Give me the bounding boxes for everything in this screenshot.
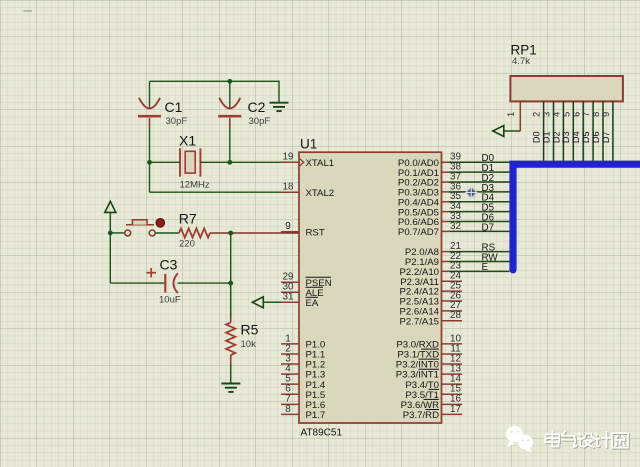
artifact faint line top-left: [24, 10, 33, 12]
pin 2 P1.1: [281, 353, 299, 355]
pin 28 P2.7: [442, 320, 463, 322]
resistor R7: [179, 228, 210, 237]
input arrow terminal EA: [252, 297, 263, 308]
wire top horizontal (C1-C2-ground net): [150, 80, 280, 82]
svg-text:19: 19: [283, 152, 294, 163]
wire button to R7: [155, 232, 179, 234]
svg-text:D6: D6: [591, 131, 601, 143]
svg-text:28: 28: [450, 310, 461, 321]
power arrow terminal (reset net): [105, 201, 116, 212]
resistor R5: [226, 323, 235, 356]
wire ground drop top-right: [278, 81, 280, 103]
svg-text:D5: D5: [581, 131, 591, 143]
pin 16 P3.6: [442, 403, 463, 405]
svg-text:D7: D7: [601, 131, 611, 143]
svg-text:8: 8: [285, 404, 291, 415]
pin 26 P2.5: [442, 300, 463, 302]
pin 25 P2.4: [442, 290, 463, 292]
pin 2 RP1 lead: [543, 101, 545, 160]
svg-text:12MHz: 12MHz: [180, 180, 210, 191]
svg-text:32: 32: [450, 221, 461, 232]
svg-text:P2.7/A15: P2.7/A15: [400, 316, 439, 327]
svg-text:C1: C1: [165, 99, 183, 115]
svg-text:P1.7: P1.7: [306, 410, 326, 421]
wire RST junction down to C3: [230, 233, 232, 283]
wire junction to button: [110, 232, 124, 234]
plus sign C3: [147, 272, 157, 274]
pin 6 RP1 lead: [582, 101, 584, 160]
op U1 body: [299, 152, 442, 423]
pin 5 P1.4: [281, 383, 299, 385]
wire XTAL1 right (X1 to U1 pin 19): [200, 161, 299, 163]
pin 10 P3.0: [442, 343, 463, 345]
svg-text:7: 7: [581, 112, 591, 117]
wire C2 top vertical: [229, 81, 231, 108]
pin 9 RST: [281, 231, 299, 233]
pin 8 P1.7: [281, 413, 299, 415]
svg-text:2: 2: [532, 112, 542, 117]
pin 21 P2.0: [442, 251, 450, 253]
pin 15 P3.5: [442, 393, 463, 395]
pin 6 P1.5: [281, 393, 299, 395]
wire C3 left horizontal: [110, 282, 164, 284]
svg-text:30pF: 30pF: [249, 116, 271, 127]
pin 27 P2.6: [442, 310, 463, 312]
pin 19 XTAL1: [281, 161, 299, 163]
wire XTAL1 left (junction to X1): [150, 161, 181, 163]
svg-text:31: 31: [283, 292, 294, 303]
pin 38 P0.1/AD1: [442, 171, 450, 173]
pin 4 P1.3: [281, 373, 299, 375]
node junction C3 right: [228, 281, 233, 286]
pin 1 P1.0: [281, 343, 299, 345]
svg-text:P0.7/AD7: P0.7/AD7: [398, 227, 439, 238]
wire R5 to ground: [230, 355, 232, 364]
svg-text:10uF: 10uF: [159, 295, 181, 306]
button SW (reset): [126, 224, 154, 226]
svg-text:18: 18: [283, 182, 294, 193]
wire C1 top vertical: [149, 81, 151, 108]
pin 1 RP1 lead: [519, 101, 521, 131]
pin 22 P2.1: [442, 260, 450, 262]
bus (data/control, blue): [513, 164, 640, 270]
svg-text:D1: D1: [541, 131, 551, 143]
pin 14 P3.4: [442, 383, 463, 385]
pin 33 P0.6/AD6: [442, 221, 450, 223]
pin 24 P2.3: [442, 280, 463, 282]
svg-text:4: 4: [552, 112, 562, 117]
pin 29 PSEN: [281, 281, 299, 283]
ground (reset bottom): [221, 383, 240, 385]
capacitor C2: [219, 98, 240, 109]
svg-text:6: 6: [571, 112, 581, 117]
svg-text:XTAL2: XTAL2: [306, 188, 335, 199]
svg-text:R7: R7: [179, 211, 197, 227]
svg-text:8: 8: [591, 112, 601, 117]
svg-text:U1: U1: [300, 137, 317, 152]
watermark text (电气设计圈): [546, 432, 560, 447]
watermark wechat logo: [506, 426, 533, 453]
svg-text:C3: C3: [160, 257, 178, 273]
wire XTAL2 horizontal (to U1 pin 18): [150, 191, 300, 193]
pin 35 P0.4/AD4: [442, 201, 450, 203]
pin 3 P1.2: [281, 363, 299, 365]
capacitor C3 (polarized): [164, 274, 166, 293]
svg-text:30pF: 30pF: [166, 116, 188, 127]
pin 31 EA: [281, 301, 299, 303]
svg-text:C2: C2: [248, 99, 266, 115]
pin 3 RP1 lead: [553, 101, 555, 160]
svg-text:D4: D4: [571, 131, 581, 143]
svg-text:5: 5: [561, 112, 571, 117]
svg-text:9: 9: [285, 221, 291, 232]
svg-text:RST: RST: [306, 227, 325, 238]
node junction XTAL1 at C2: [227, 160, 232, 165]
pin 11 P3.1: [442, 353, 463, 355]
power arrow terminal RP1 pin1: [493, 126, 504, 137]
svg-text:10k: 10k: [241, 339, 257, 350]
svg-text:R5: R5: [241, 322, 259, 338]
svg-text:E: E: [482, 262, 489, 273]
svg-text:EA: EA: [306, 298, 319, 309]
svg-text:P3.7/RD: P3.7/RD: [403, 410, 439, 421]
pin 12 P3.2: [442, 363, 463, 365]
svg-text:D2: D2: [551, 131, 561, 143]
svg-text:3: 3: [542, 112, 552, 117]
wire C3 right to junction: [178, 282, 231, 284]
wire left vertical (button to C3): [109, 233, 111, 283]
pin 7 P1.6: [281, 403, 299, 405]
crystal X1: [179, 148, 181, 176]
pin 23 P2.2: [442, 270, 450, 272]
node junction RST: [228, 231, 233, 236]
node junction top (C2 to top wire): [227, 79, 232, 84]
svg-text:17: 17: [450, 404, 461, 415]
node junction XTAL1 left: [147, 160, 152, 165]
svg-text:4.7k: 4.7k: [512, 56, 530, 67]
pin 5 RP1 lead: [572, 101, 574, 160]
capacitor C1: [139, 98, 160, 109]
svg-text:AT89C51: AT89C51: [301, 428, 343, 439]
pin 17 P3.7: [442, 413, 463, 415]
node junction button left: [108, 231, 113, 236]
origin marker (diamond cursor): [466, 187, 477, 198]
svg-text:D3: D3: [561, 131, 571, 143]
pin 7 RP1 lead: [592, 101, 594, 160]
pin 30 ALE: [281, 291, 299, 293]
svg-text:D7: D7: [482, 222, 495, 233]
pin 13 P3.3: [442, 373, 463, 375]
pin 4 RP1 lead: [562, 101, 564, 160]
pin 39 P0.0/AD0: [442, 161, 450, 163]
pin 32 P0.7/AD7: [442, 230, 450, 232]
pin 34 P0.5/AD5: [442, 211, 450, 213]
resistor-pack RP1 body: [510, 76, 623, 101]
svg-text:9: 9: [601, 112, 611, 117]
svg-text:XTAL1: XTAL1: [306, 158, 335, 169]
pin 9 RP1 lead: [612, 101, 614, 160]
wire R7 to RST pin: [210, 232, 299, 234]
pin 37 P0.2/AD2: [442, 181, 450, 183]
ground (top right): [270, 102, 289, 104]
svg-text:1: 1: [506, 112, 516, 117]
pin 36 P0.3/AD3: [442, 191, 450, 193]
svg-text:D0: D0: [532, 131, 542, 143]
button actuator red dot: [156, 219, 165, 228]
svg-text:X1: X1: [179, 133, 196, 149]
wire junction down to R5: [230, 283, 232, 317]
wire XTAL2 left vertical: [149, 162, 151, 192]
svg-text:220: 220: [179, 239, 195, 250]
pin 8 RP1 lead: [602, 101, 604, 160]
pin 18 XTAL2: [281, 191, 299, 193]
